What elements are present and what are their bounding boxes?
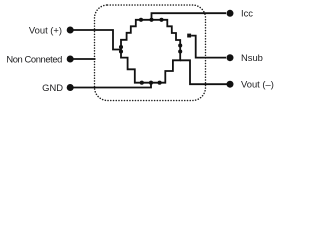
substrate contact pad (square) [187, 34, 191, 38]
svg-text:Nsub: Nsub [241, 52, 263, 63]
svg-text:Vout (+): Vout (+) [29, 25, 62, 36]
svg-text:Non Conneted: Non Conneted [6, 54, 62, 65]
pin Icc [227, 10, 234, 17]
svg-text:Icc: Icc [241, 8, 253, 19]
contact dots on bottom edge [140, 81, 144, 85]
wire Vout(-) (right contact to pin) [180, 60, 227, 84]
svg-text:Vout (–): Vout (–) [241, 79, 274, 90]
pin GND [67, 84, 74, 91]
wire Vout(+) (pin to left contact) [71, 30, 122, 50]
wire Nsub (substrate pad to Nsub pin) [191, 36, 226, 58]
contact dots on top edge [139, 18, 143, 22]
wire Non Connected stub [71, 58, 96, 60]
wire GND (pin to bottom contact) [71, 83, 152, 88]
chip outline (dotted package boundary) [95, 5, 206, 101]
pin Vout(+) [67, 27, 74, 34]
wire Icc (top contact to Icc pin) [152, 13, 227, 20]
Hall element H1 (staircase diamond) [121, 20, 180, 83]
pin Non Connected [67, 56, 74, 63]
pin Nsub [227, 54, 234, 61]
pin Vout(-) [227, 81, 234, 88]
svg-text:GND: GND [42, 82, 63, 93]
contact dots on left bar [119, 45, 123, 49]
contact dots on right bar [178, 43, 182, 47]
